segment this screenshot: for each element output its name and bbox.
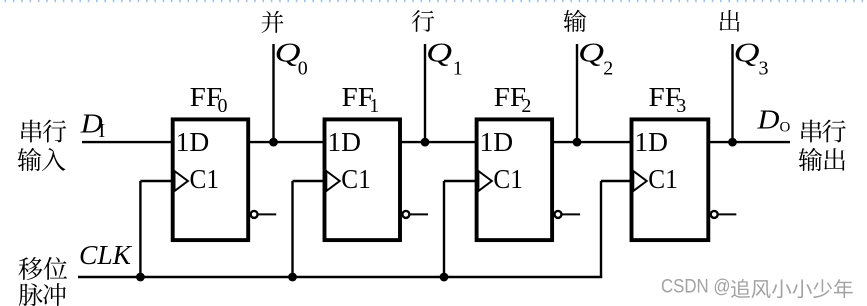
- label 串行输出 (serial output): [799, 120, 846, 171]
- inverted output bubble FF0: [251, 211, 258, 218]
- flip-flop FF1 box: [325, 119, 401, 240]
- svg-text:1: 1: [453, 58, 463, 80]
- node: junction dot Q3: [728, 138, 737, 147]
- wire: clock riser to FF2: [443, 181, 445, 277]
- label Q0: [275, 37, 308, 80]
- svg-text:I: I: [99, 120, 106, 142]
- wire: clock feed into FF2 C1: [444, 180, 477, 182]
- label FF3: [649, 81, 687, 117]
- svg-text:1D: 1D: [176, 126, 210, 157]
- label 串行输入 (serial input): [18, 120, 67, 171]
- stub wire from bubble FF2: [562, 213, 581, 215]
- wire: clock feed into FF0 C1: [140, 180, 172, 182]
- svg-text:0: 0: [298, 58, 308, 80]
- wire: CLK bus: [78, 276, 602, 278]
- wire: clock riser to FF3: [600, 181, 602, 277]
- label 出 (parallel output caption): [720, 10, 740, 32]
- label 输 (parallel output caption): [564, 10, 587, 32]
- wire: serial input to FF0 1D: [82, 141, 173, 143]
- clock edge triangle FF1: [326, 171, 339, 191]
- clock edge triangle FF0: [175, 171, 188, 191]
- wire: Q1 vertical tap: [424, 44, 426, 142]
- svg-text:2: 2: [521, 95, 531, 117]
- svg-text:Q: Q: [578, 37, 604, 68]
- inverted output bubble FF1: [402, 211, 409, 218]
- flip-flop FF2 box: [477, 119, 552, 240]
- node: junction dot CLK/FF0: [136, 273, 145, 282]
- node: junction dot CLK/FF2: [440, 273, 449, 282]
- watermark CSDN @追风小小少年: [661, 276, 854, 300]
- svg-text:1: 1: [369, 95, 379, 117]
- node: junction dot CLK/FF1: [288, 273, 297, 282]
- svg-text:3: 3: [759, 58, 769, 80]
- clock edge triangle FF2: [478, 171, 491, 191]
- svg-text:1D: 1D: [634, 126, 668, 157]
- wire: Q2 vertical tap: [576, 44, 578, 142]
- wire: Q3 serial output: [708, 141, 790, 143]
- wire: Q1 output FF1 to FF2 1D: [400, 141, 477, 143]
- wire: clock riser to FF1: [291, 181, 293, 277]
- label 并 (parallel output caption): [262, 11, 284, 33]
- svg-text:Q: Q: [734, 37, 760, 68]
- svg-text:Q: Q: [426, 37, 452, 68]
- wire: clock feed into FF3 C1: [601, 180, 632, 182]
- label Q2: [578, 37, 613, 80]
- label Q3: [734, 37, 769, 80]
- svg-text:O: O: [780, 120, 791, 136]
- stub wire from bubble FF3: [718, 213, 737, 215]
- flip-flop FF0 box: [173, 119, 249, 240]
- inverted output bubble FF3: [711, 211, 718, 218]
- wire: Q0 output FF0 to FF1 1D: [248, 141, 324, 143]
- svg-text:CLK: CLK: [79, 239, 133, 270]
- label FF1: [342, 81, 380, 117]
- wire: Q2 output FF2 to FF3 1D: [552, 141, 631, 143]
- label D_I: [80, 108, 105, 143]
- wire: Q0 vertical tap: [272, 44, 274, 142]
- label D_O: [756, 104, 790, 136]
- svg-text:1D: 1D: [327, 126, 361, 157]
- stub wire from bubble FF1: [409, 213, 428, 215]
- node: junction dot Q0: [269, 138, 278, 147]
- label Q1: [426, 37, 463, 80]
- clock edge triangle FF3: [633, 171, 646, 191]
- svg-text:CSDN @: CSDN @: [661, 276, 731, 298]
- svg-text:2: 2: [603, 58, 613, 80]
- svg-text:C1: C1: [648, 163, 678, 194]
- label FF0: [190, 81, 228, 117]
- svg-text:D: D: [756, 104, 779, 135]
- label 行 (parallel output caption): [412, 10, 435, 32]
- wire: clock riser to FF0: [139, 181, 141, 277]
- inverted output bubble FF2: [555, 211, 562, 218]
- node: junction dot Q1: [421, 138, 430, 147]
- svg-text:0: 0: [218, 95, 228, 117]
- stub wire from bubble FF0: [258, 213, 277, 215]
- svg-text:3: 3: [676, 95, 686, 117]
- label FF2: [494, 81, 532, 117]
- svg-text:C1: C1: [190, 163, 220, 194]
- node: junction dot Q2: [573, 138, 582, 147]
- svg-text:C1: C1: [493, 163, 523, 194]
- svg-text:1D: 1D: [480, 126, 514, 157]
- wire: Q3 vertical tap: [731, 44, 733, 142]
- decorative top dotted border: [5, 0, 864, 3]
- svg-text:C1: C1: [341, 163, 371, 194]
- wire: clock feed into FF1 C1: [293, 180, 325, 182]
- label 移位脉冲 (shift pulse): [18, 257, 67, 306]
- flip-flop FF3 box: [632, 119, 709, 240]
